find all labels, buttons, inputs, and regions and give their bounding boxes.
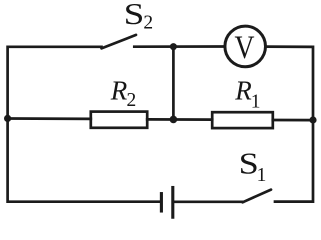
switch S2 blade xyxy=(102,35,137,49)
switch S1 blade xyxy=(243,190,271,203)
svg-text:2: 2 xyxy=(127,90,137,111)
wire middle left: frame to R2 xyxy=(8,117,91,120)
node D: right frame junction xyxy=(309,116,316,123)
svg-text:2: 2 xyxy=(143,12,153,33)
node B: center junction between R2 and R1 xyxy=(170,116,178,124)
svg-text:1: 1 xyxy=(251,92,261,113)
svg-text:S: S xyxy=(124,0,145,31)
label R1 xyxy=(234,76,260,113)
svg-text:1: 1 xyxy=(257,165,267,186)
svg-text:V: V xyxy=(235,30,255,66)
battery positive plate (tall) xyxy=(171,188,174,218)
wire middle center: R2 to R1 through junction xyxy=(147,118,212,121)
node C: left frame junction xyxy=(4,115,11,122)
resistor R2 box xyxy=(91,112,147,128)
label S1 xyxy=(239,147,267,186)
svg-text:R: R xyxy=(110,76,128,106)
voltmeter U1 circle xyxy=(225,26,266,67)
battery negative plate (short) xyxy=(160,194,163,211)
resistor R1 box xyxy=(212,112,273,128)
wire top middle: S2 right contact to voltmeter xyxy=(134,45,225,48)
label R2 xyxy=(110,76,137,112)
label S2 xyxy=(124,0,154,33)
svg-text:R: R xyxy=(234,76,252,106)
wire vertical: top junction to middle junction xyxy=(172,47,175,120)
node A: top junction S2/voltmeter/R1 branch xyxy=(170,43,177,50)
wire left frame: bottom-left run to battery, left vertical, top-left run to S2 xyxy=(8,47,161,202)
wire middle right: R1 to frame xyxy=(273,119,313,122)
wire bottom middle: battery plus to S1 xyxy=(174,200,243,203)
wire right frame: top-right run from voltmeter, right vertical, bottom-right run to S1 xyxy=(266,47,313,202)
